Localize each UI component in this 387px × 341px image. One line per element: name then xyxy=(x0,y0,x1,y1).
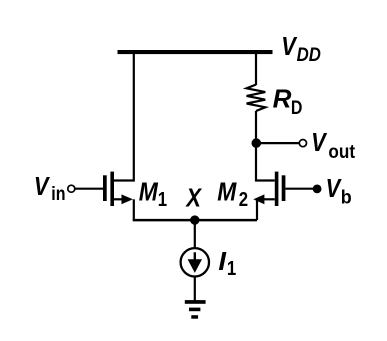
wire: Vout node to terminal xyxy=(256,142,298,144)
svg-text:V: V xyxy=(326,174,342,203)
wire: right branch VDD rail to resistor xyxy=(255,52,257,85)
svg-text:X: X xyxy=(185,184,203,213)
resistor RD xyxy=(247,85,266,112)
svg-text:M: M xyxy=(217,178,237,207)
label RD xyxy=(273,84,303,119)
label M2 xyxy=(217,178,248,210)
label Vb xyxy=(326,174,352,207)
terminal Vin xyxy=(68,185,75,192)
label Vout xyxy=(311,128,355,162)
svg-text:V: V xyxy=(281,32,297,61)
wire: M1 source down to node X rail xyxy=(133,199,135,220)
svg-text:V: V xyxy=(311,128,327,157)
svg-text:I: I xyxy=(218,246,226,275)
wire: current source to ground xyxy=(194,277,196,301)
label I1 xyxy=(218,246,236,279)
wire: M2 source down to node X rail xyxy=(256,199,258,220)
svg-text:2: 2 xyxy=(239,187,248,210)
transistor M1 xyxy=(103,172,133,206)
node X junction dot xyxy=(190,215,199,224)
wire: M2 gate to Vb terminal xyxy=(285,188,313,190)
wire left branch: VDD rail to M1 drain xyxy=(114,52,134,181)
label M1 xyxy=(139,178,167,210)
svg-text:M: M xyxy=(139,178,159,207)
svg-text:in: in xyxy=(51,182,65,204)
svg-text:DD: DD xyxy=(297,44,321,65)
svg-text:D: D xyxy=(291,96,303,118)
wire: resistor to M2 drain (through Vout node) xyxy=(256,111,275,181)
svg-text:R: R xyxy=(273,84,292,114)
label X xyxy=(185,184,203,213)
terminal Vout xyxy=(299,140,306,147)
ground xyxy=(185,300,206,319)
svg-text:b: b xyxy=(341,186,352,208)
svg-text:1: 1 xyxy=(158,187,167,210)
node Vout junction dot xyxy=(251,138,261,148)
terminal Vb dot xyxy=(313,185,322,194)
svg-text:1: 1 xyxy=(227,257,236,280)
wire: bottom rail joining M1 and M2 sources xyxy=(133,219,257,222)
label Vin xyxy=(34,172,66,204)
VDD rail xyxy=(118,50,273,54)
svg-text:out: out xyxy=(328,140,355,162)
current source I1 xyxy=(181,248,209,276)
wire: node X to current source xyxy=(194,220,196,248)
label VDD xyxy=(281,32,321,65)
transistor M2 xyxy=(253,172,285,206)
svg-text:V: V xyxy=(34,172,50,201)
wire: Vin terminal to M1 gate xyxy=(75,188,103,190)
